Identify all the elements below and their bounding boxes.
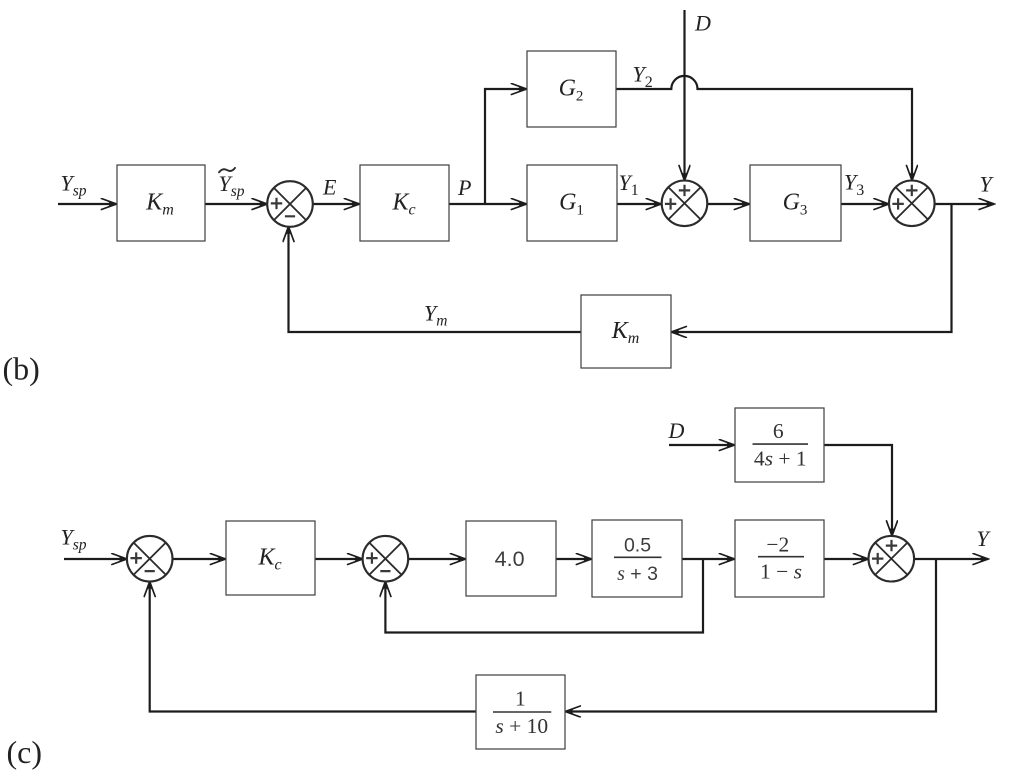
svg-text:Y2: Y2 <box>633 62 653 91</box>
svg-text:Ym: Ym <box>424 300 447 329</box>
svg-text:6: 6 <box>773 419 784 443</box>
svg-text:s + 3: s + 3 <box>617 563 658 585</box>
svg-text:Ysp: Ysp <box>61 170 87 199</box>
svg-text:4.0: 4.0 <box>495 547 525 571</box>
svg-text:D: D <box>668 418 685 443</box>
svg-text:Ysp: Ysp <box>219 171 245 200</box>
svg-text:0.5: 0.5 <box>624 535 651 557</box>
svg-text:Y: Y <box>980 172 995 197</box>
svg-text:Ysp: Ysp <box>61 524 87 553</box>
svg-text:D: D <box>694 11 711 36</box>
svg-text:1: 1 <box>515 687 526 711</box>
svg-text:Y3: Y3 <box>844 170 864 199</box>
svg-text:−2: −2 <box>766 532 789 556</box>
svg-text:4s + 1: 4s + 1 <box>754 446 807 470</box>
svg-text:(b): (b) <box>3 351 40 387</box>
svg-text:E: E <box>322 175 337 200</box>
svg-text:s + 10: s + 10 <box>495 714 548 738</box>
svg-text:Y1: Y1 <box>619 170 639 199</box>
svg-text:Y: Y <box>977 526 992 551</box>
svg-text:P: P <box>457 175 471 200</box>
svg-text:1 − s: 1 − s <box>760 559 802 583</box>
svg-text:(c): (c) <box>7 734 43 770</box>
